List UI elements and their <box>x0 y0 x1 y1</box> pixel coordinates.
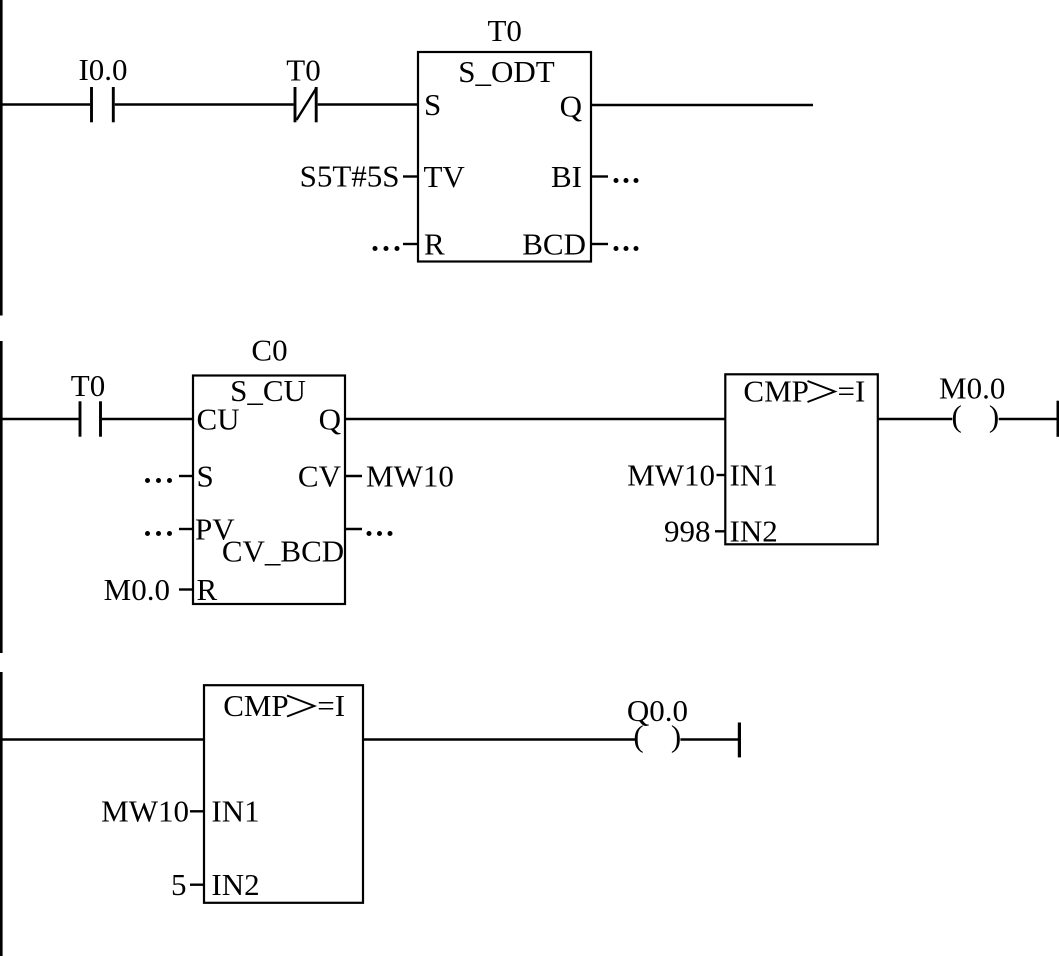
svg-text:IN2: IN2 <box>730 514 778 549</box>
svg-text:CMP: CMP <box>743 374 808 409</box>
wire CMP output to coil Q0.0 <box>363 738 635 741</box>
svg-text:MW10: MW10 <box>101 794 189 829</box>
right rail stub (network 2) <box>1057 401 1059 437</box>
svg-text:=I: =I <box>317 688 345 723</box>
svg-text:M0.0: M0.0 <box>104 572 170 607</box>
ellipsis R input unconnected <box>373 246 400 251</box>
wire coil Q0.0 to right rail stub <box>680 738 738 741</box>
wire CMP output to coil M0.0 <box>878 418 953 421</box>
svg-text:T0: T0 <box>286 53 320 88</box>
svg-text:998: 998 <box>664 514 711 549</box>
svg-text:T0: T0 <box>71 368 105 403</box>
wire rail to CMP box (network 3) <box>0 738 204 741</box>
ellipsis S input unconnected <box>145 478 172 483</box>
svg-text:Q: Q <box>560 89 582 124</box>
ellipsis BI output unconnected <box>614 178 639 183</box>
wire CV_BCD output stub <box>345 528 362 530</box>
coil M0.0 <box>939 371 1005 434</box>
wire rail to contact I0.0 <box>0 103 90 106</box>
wire IN2 input stub (network 2) <box>715 530 725 532</box>
svg-text:BCD: BCD <box>522 227 586 262</box>
wire IN1 input stub (network 3) <box>190 810 204 812</box>
coil Q0.0 <box>627 693 688 754</box>
svg-text:S5T#5S: S5T#5S <box>300 159 400 194</box>
left power rail (network 1) <box>0 0 3 316</box>
comparator CMP>=I box (network 3) <box>204 685 363 903</box>
svg-text:CV: CV <box>298 459 342 494</box>
svg-text:Q: Q <box>319 402 341 437</box>
wire BCD output stub <box>592 243 608 245</box>
ellipsis BCD output unconnected <box>614 246 639 251</box>
left power rail (network 2) <box>0 341 3 653</box>
svg-text:S: S <box>197 459 214 494</box>
svg-text:MW10: MW10 <box>366 459 454 494</box>
svg-text:I0.0: I0.0 <box>78 52 127 87</box>
svg-text:): ) <box>671 719 681 754</box>
wire S input stub (counter) <box>179 475 192 477</box>
wire contact I0.0 to contact T0 <box>115 103 294 106</box>
ellipsis CV_BCD output unconnected <box>367 531 393 536</box>
svg-text:CV_BCD: CV_BCD <box>222 534 344 569</box>
contact T0 (NC) <box>286 53 320 123</box>
svg-text:S: S <box>424 87 441 122</box>
ellipsis PV input unconnected <box>145 531 172 536</box>
contact T0 (NO, network 2) <box>71 368 105 437</box>
svg-text:S_ODT: S_ODT <box>458 54 555 89</box>
svg-text:(: ( <box>633 719 643 754</box>
wire IN2 input stub (network 3) <box>190 884 204 886</box>
svg-text:IN1: IN1 <box>211 794 259 829</box>
svg-text:5: 5 <box>171 867 187 902</box>
svg-text:(: ( <box>952 399 962 434</box>
wire contact T0 to counter box CU input <box>102 418 193 421</box>
svg-text:CU: CU <box>197 402 240 437</box>
svg-text:): ) <box>989 399 999 434</box>
svg-text:IN2: IN2 <box>211 867 259 902</box>
svg-text:TV: TV <box>424 159 466 194</box>
svg-text:R: R <box>197 572 218 607</box>
wire contact T0 to timer box S input <box>318 103 418 106</box>
svg-text:S_CU: S_CU <box>230 373 306 408</box>
contact I0.0 (NO) <box>78 52 127 122</box>
svg-text:MW10: MW10 <box>627 458 715 493</box>
wire BI output stub <box>592 175 608 177</box>
wire Q output of counter to CMP box <box>345 418 725 421</box>
right rail stub (network 3) <box>738 723 741 758</box>
svg-text:CMP: CMP <box>223 688 288 723</box>
comparator CMP>=I box (network 2) <box>725 374 878 545</box>
svg-text:R: R <box>424 227 445 262</box>
wire Q output of timer <box>591 104 813 107</box>
svg-text:=I: =I <box>838 374 866 409</box>
svg-text:BI: BI <box>551 159 582 194</box>
wire R input stub <box>403 243 417 245</box>
left power rail (network 3) <box>0 672 3 956</box>
svg-text:C0: C0 <box>251 333 287 368</box>
wire coil M0.0 to right rail <box>999 418 1057 421</box>
wire rail to contact T0 (network 2) <box>0 418 79 421</box>
counter C0 S_CU box <box>193 333 345 605</box>
timer T0 S_ODT box <box>418 13 591 262</box>
wire CV output stub <box>345 475 362 477</box>
wire R input stub (counter) <box>179 588 192 590</box>
wire PV input stub <box>179 528 192 530</box>
svg-text:IN1: IN1 <box>730 458 778 493</box>
wire IN1 input stub (network 2) <box>717 474 726 476</box>
svg-text:T0: T0 <box>487 13 521 48</box>
wire TV input stub <box>403 175 417 177</box>
